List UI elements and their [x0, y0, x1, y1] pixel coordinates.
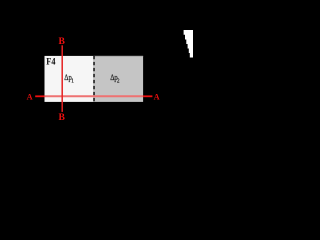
label delta-p2 subscript 2 [117, 78, 120, 84]
svg-text:B: B [58, 112, 65, 123]
axis A-A right stub [143, 95, 152, 97]
axis A-A left stub [35, 95, 44, 97]
svg-text:2: 2 [117, 78, 120, 84]
chamber left half (light) [45, 56, 94, 102]
svg-text:F4: F4 [46, 58, 55, 68]
white wedge (top-right corner shape) [184, 30, 193, 58]
gray half top shade [94, 55, 143, 57]
svg-text:A: A [27, 92, 33, 101]
label delta-p1 subscript 1 [71, 78, 74, 84]
svg-text:B: B [58, 36, 65, 47]
chamber right half (gray) [94, 56, 143, 102]
axis A-A horizontal line inside chamber [45, 95, 144, 97]
label delta-p2 [110, 72, 118, 82]
svg-text:1: 1 [71, 78, 74, 84]
svg-text:A: A [154, 93, 160, 102]
label delta-p1 [64, 72, 72, 82]
axis B-B vertical line [61, 45, 63, 112]
dashed divider [93, 56, 95, 102]
